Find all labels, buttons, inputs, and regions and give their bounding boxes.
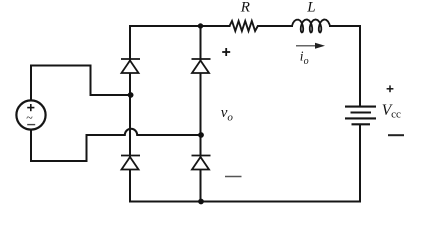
diode D4 (bottom right) — [192, 156, 211, 170]
wire: top rail from inductor to right edge — [330, 25, 360, 27]
svg-text:R: R — [240, 0, 250, 15]
vo plus sign — [222, 48, 230, 56]
wire: right edge bottom (battery - to bottom rail) — [359, 125, 361, 202]
wire: top rail left segment to resistor — [130, 25, 230, 27]
battery minus sign — [388, 134, 404, 136]
wire: bottom rail — [130, 201, 360, 203]
vo minus sign — [225, 176, 242, 178]
svg-text:L: L — [306, 0, 315, 16]
diode D1 (top left) — [121, 59, 140, 73]
wire: source bottom lead and bottom arm to node b (with hop over left leg) — [31, 129, 200, 161]
resistor R — [230, 21, 261, 31]
battery plus sign — [387, 85, 394, 92]
diode D2 (top right) — [192, 59, 211, 73]
junction: right leg at bottom rail — [198, 199, 204, 205]
ac source minus — [27, 124, 35, 126]
wire: right bridge leg (top rail to bottom rail) — [200, 26, 202, 202]
junction node a (left leg / source top arm) — [128, 92, 134, 98]
svg-text:~: ~ — [26, 111, 33, 125]
wire: top rail between resistor and inductor — [260, 25, 292, 27]
wire: left bridge leg (top rail to bottom rail) — [129, 26, 131, 202]
diode D3 (bottom left) — [121, 156, 140, 170]
ac source V1 — [16, 100, 45, 129]
inductor L — [292, 20, 330, 33]
battery Vcc — [345, 107, 376, 125]
ac source plus sign — [27, 104, 34, 111]
current arrow io — [296, 43, 325, 49]
wire: source top lead and top arm to node a — [31, 66, 129, 101]
wire: right edge top (to battery +) — [359, 26, 361, 107]
junction node b (right leg / source bottom arm) — [198, 132, 204, 138]
junction: right leg at top rail — [198, 23, 203, 28]
